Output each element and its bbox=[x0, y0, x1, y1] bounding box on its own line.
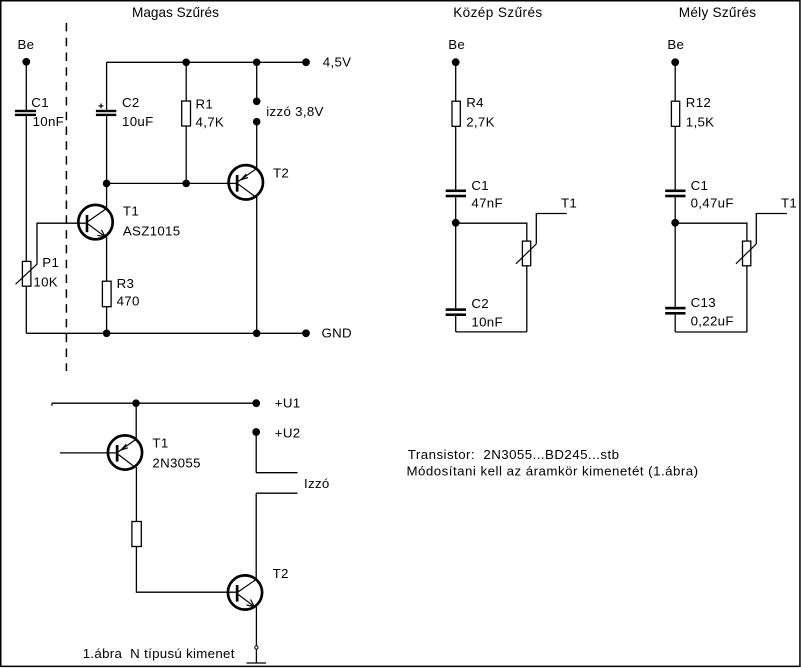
svg-text:T1: T1 bbox=[123, 204, 139, 219]
svg-text:+U2: +U2 bbox=[275, 426, 301, 441]
trimmer T1 (Kozep) bbox=[522, 241, 530, 266]
wire trimmer bottom bbox=[526, 266, 528, 332]
transistor T1 ASZ1015 (Magas) bbox=[78, 205, 112, 239]
svg-text:47nF: 47nF bbox=[471, 195, 503, 210]
wiper wire to T1 terminal (Kozep) bbox=[536, 214, 567, 244]
resistor R1 4,7K bbox=[185, 62, 187, 101]
svg-text:10nF: 10nF bbox=[33, 114, 65, 129]
transistor T2 (bottom) bbox=[228, 575, 262, 609]
junction dot (Kozep) bbox=[452, 219, 460, 227]
resistor R4 2,7K bbox=[452, 101, 460, 126]
wire C1 down through junction to C2 bbox=[455, 197, 457, 308]
svg-text:R3: R3 bbox=[117, 276, 135, 291]
wire C13 to bottom wire bbox=[674, 315, 676, 332]
svg-text:T2: T2 bbox=[273, 566, 289, 581]
capacitor C1 0,47uF (Mely) bbox=[665, 190, 685, 193]
wire R3 to GND rail bbox=[106, 307, 108, 334]
wire C2 up to rail bbox=[106, 62, 108, 110]
capacitor C1 10nF (Magas) bbox=[15, 110, 36, 112]
capacitor C2 10nF (Kozep) bbox=[446, 308, 466, 311]
wire T2 emitter to ground bbox=[255, 607, 257, 663]
svg-text:0,22uF: 0,22uF bbox=[691, 314, 734, 329]
svg-text:C1: C1 bbox=[31, 95, 49, 110]
svg-text:2N3055: 2N3055 bbox=[152, 455, 200, 470]
wire T1 collector up bbox=[106, 183, 108, 208]
svg-text:T2: T2 bbox=[273, 166, 289, 181]
wiper wire to T1 terminal (Mely) bbox=[756, 214, 787, 244]
svg-text:Magas Szűrés: Magas Szűrés bbox=[132, 5, 219, 20]
junction dot (Mely) bbox=[671, 219, 679, 227]
svg-text:R1: R1 bbox=[196, 96, 214, 111]
wire lamp to T2 collector bbox=[255, 493, 257, 579]
svg-text:470: 470 bbox=[117, 293, 140, 308]
wire junction to trimmer top (Mely) bbox=[675, 223, 747, 241]
wire junction to trimmer top bbox=[456, 223, 527, 241]
wire resistor to T2 base bbox=[136, 547, 235, 593]
resistor R3 470 bbox=[102, 281, 111, 307]
resistor (unlabeled, bottom) bbox=[132, 522, 141, 547]
svg-text:izzó 3,8V: izzó 3,8V bbox=[266, 104, 323, 119]
svg-text:Közép Szűrés: Közép Szűrés bbox=[453, 5, 542, 20]
svg-text:10uF: 10uF bbox=[122, 114, 154, 129]
junction mid rail left bbox=[103, 180, 111, 188]
svg-text:Mély Szűrés: Mély Szűrés bbox=[679, 5, 757, 20]
wire C2 to bottom wire bbox=[455, 316, 457, 332]
junction mid rail / R1 bbox=[182, 180, 190, 188]
svg-text:Be: Be bbox=[667, 37, 684, 52]
marker on ground wire bbox=[255, 646, 258, 649]
dashed separator bbox=[65, 23, 67, 371]
svg-text:10nF: 10nF bbox=[471, 314, 503, 329]
svg-text:C1: C1 bbox=[691, 178, 709, 193]
junction +U1 rail / T1 collector bbox=[132, 399, 140, 407]
svg-text:0,47uF: 0,47uF bbox=[691, 195, 734, 210]
svg-text:2,7K: 2,7K bbox=[466, 114, 495, 129]
trimmer T1 (Mely) bbox=[743, 241, 751, 266]
svg-text:+U1: +U1 bbox=[275, 396, 301, 411]
svg-text:R12: R12 bbox=[686, 95, 711, 110]
svg-text:1,5K: 1,5K bbox=[686, 114, 715, 129]
svg-text:C2: C2 bbox=[122, 95, 140, 110]
svg-text:Be: Be bbox=[18, 37, 35, 52]
bottom wire (Kozep) bbox=[456, 331, 527, 333]
svg-text:1.ábra N típusú kimenet: 1.ábra N típusú kimenet bbox=[83, 646, 235, 661]
svg-text:4,7K: 4,7K bbox=[196, 115, 225, 130]
svg-text:T1: T1 bbox=[781, 196, 797, 211]
transistor T2 (Magas) bbox=[229, 165, 263, 199]
node 4,5V bbox=[302, 58, 310, 66]
junction GND/R3 bbox=[103, 330, 111, 338]
wire T1 collector to +U1 rail bbox=[135, 403, 137, 439]
svg-text:P1: P1 bbox=[42, 255, 59, 270]
svg-text:Be: Be bbox=[448, 37, 465, 52]
svg-text:10K: 10K bbox=[33, 275, 58, 290]
svg-text:R4: R4 bbox=[466, 95, 484, 110]
svg-text:ASZ1015: ASZ1015 bbox=[123, 224, 181, 239]
wire mid rail to T2 base bbox=[107, 182, 236, 184]
lamp izzo 3,8V terminals bbox=[256, 62, 258, 99]
wire Be to R12 bbox=[674, 62, 676, 101]
node GND bbox=[302, 329, 310, 337]
wire P1 to GND rail bbox=[25, 286, 27, 333]
node +U1 bbox=[252, 399, 260, 407]
svg-text:Izzó: Izzó bbox=[304, 476, 330, 491]
wire trimmer bottom (Mely) bbox=[746, 266, 748, 332]
transistor T1 2N3055 bbox=[108, 435, 142, 469]
svg-text:GND: GND bbox=[322, 325, 352, 340]
wire R1 to mid rail bbox=[185, 126, 187, 183]
wire C1 to P1 bbox=[25, 116, 27, 261]
svg-text:C13: C13 bbox=[691, 295, 716, 310]
capacitor C1 47nF (Kozep) bbox=[446, 190, 466, 193]
lamp Izzo plates bbox=[256, 472, 297, 474]
wire T1 emitter to resistor bbox=[135, 467, 137, 522]
wire C2 bottom to mid rail bbox=[106, 116, 108, 183]
node +U2 bbox=[252, 428, 260, 436]
wire +U1 rail bbox=[52, 402, 256, 404]
wire +U2 to lamp bbox=[255, 432, 257, 473]
wire P1 wiper to T1 base bbox=[37, 223, 86, 264]
capacitor C13 0,22uF bbox=[665, 307, 685, 310]
wire R4 to C1 bbox=[455, 126, 457, 189]
svg-text:T1: T1 bbox=[152, 436, 168, 451]
wire 4,5V rail bbox=[107, 61, 306, 63]
capacitor C2 10uF electrolytic bbox=[96, 110, 116, 112]
bottom wire (Mely) bbox=[675, 331, 747, 333]
wire R12 to C1 bbox=[674, 126, 676, 189]
wire T1 emitter to R3 bbox=[106, 237, 108, 281]
resistor R12 1,5K bbox=[671, 101, 679, 126]
potentiometer P1 10K bbox=[22, 261, 31, 286]
svg-text:C1: C1 bbox=[471, 178, 489, 193]
ground bbox=[247, 662, 266, 664]
GND rail bbox=[26, 332, 306, 334]
svg-text:Transistor: 2N3055...BD245...: Transistor: 2N3055...BD245...stb bbox=[408, 447, 620, 462]
wire C1 down through junction to C13 bbox=[674, 197, 676, 306]
wire Be to C1 bbox=[25, 62, 27, 110]
wire Be to R4 bbox=[455, 62, 457, 101]
junction rail/lamp bbox=[253, 59, 261, 67]
svg-text:C2: C2 bbox=[471, 296, 489, 311]
svg-text:4,5V: 4,5V bbox=[323, 55, 352, 70]
junction GND/T2 bbox=[253, 330, 261, 338]
svg-text:Módosítani kell az áramkör kim: Módosítani kell az áramkör kimenetét (1.… bbox=[407, 464, 699, 479]
svg-text:T1: T1 bbox=[561, 196, 577, 211]
junction rail/R1 bbox=[182, 59, 190, 67]
wire T2 collector to GND rail bbox=[256, 197, 258, 333]
